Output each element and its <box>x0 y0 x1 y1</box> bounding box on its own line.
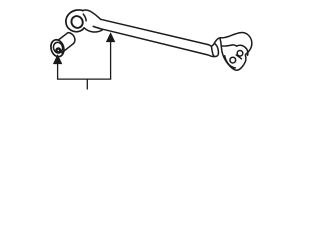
bushing front face outer ellipse <box>49 38 66 58</box>
bushing rear cap arc <box>68 33 75 44</box>
bushing body tangent top <box>59 33 68 40</box>
rod eyelet outer ring contour <box>66 10 84 32</box>
eyelet hole <box>69 14 85 30</box>
fork plate bottom thickness line <box>225 56 236 68</box>
shaft bottom line flowing into collar bottom <box>103 29 219 56</box>
fork flange plate outline <box>220 33 252 71</box>
upper hole <box>237 51 243 57</box>
eyelet boss bottom contour <box>84 28 102 32</box>
bushing body tangent bottom <box>62 43 74 52</box>
eyelet boss top contour <box>83 10 101 19</box>
collar cup at neck <box>211 44 218 57</box>
land edge between bosses <box>236 55 241 59</box>
callout right arrowhead <box>107 34 114 42</box>
shaft top line into neck saddle and plate top corner <box>101 19 220 46</box>
callout right arrow shaft <box>110 41 112 79</box>
callout left arrow shaft <box>57 63 59 80</box>
fork plate face boundary line <box>223 45 237 46</box>
bushing front face inner step ellipse <box>52 41 64 54</box>
callout left arrowhead <box>54 56 61 64</box>
upper boss arc <box>237 45 248 55</box>
callout centre stub <box>86 79 88 89</box>
eyelet tube inner edge <box>93 26 102 29</box>
callout horizontal line <box>57 78 111 80</box>
lower hole <box>230 57 236 63</box>
eyelet ring/boss thickness arc <box>83 14 86 21</box>
bushing small hole (dark ring) <box>56 49 60 53</box>
